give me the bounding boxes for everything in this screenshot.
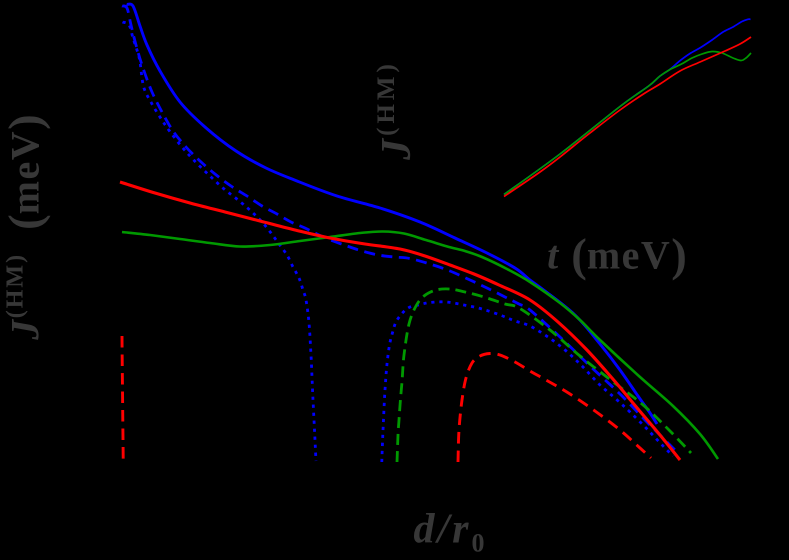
blue solid curve [127, 4, 658, 424]
inset x-axis label t (meV) [547, 232, 687, 279]
inset blue curve [504, 19, 751, 194]
green solid curve [122, 231, 718, 459]
red dashed curve, left vertical segment [122, 336, 123, 460]
blue dotted curve, right branch [382, 302, 673, 462]
blue dotted curve, left branch (diverges at x~315) [123, 22, 317, 461]
red dashed curve, right arc [458, 353, 651, 462]
x-axis label d/r0 [413, 505, 484, 558]
inset green curve [504, 51, 751, 194]
red solid curve [120, 182, 680, 460]
inset red curve [504, 37, 751, 197]
inset y-axis label J^(HM) [373, 60, 421, 160]
blue dashed curve [122, 6, 675, 450]
green dashed curve [397, 289, 691, 462]
y-axis label J^(HM) (meV) [2, 114, 49, 339]
